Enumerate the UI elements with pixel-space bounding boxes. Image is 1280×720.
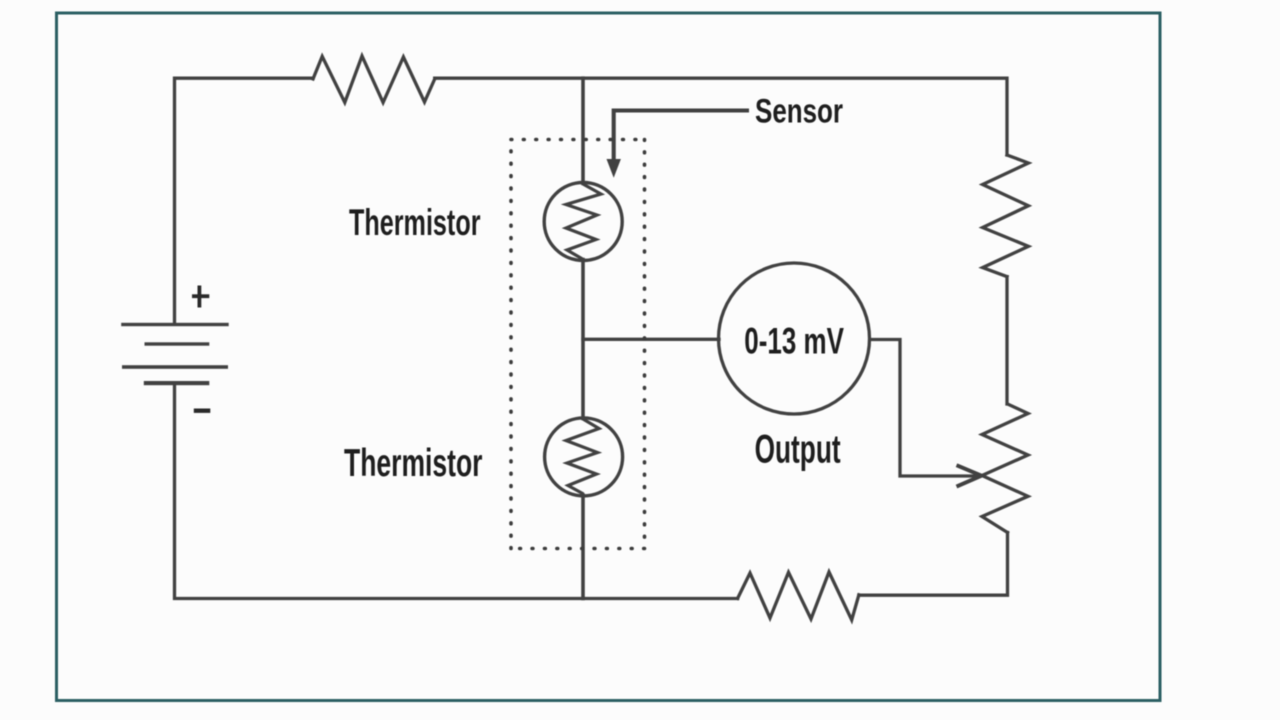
wire top-left: battery top to resistor R1 <box>175 78 314 323</box>
svg-text:Sensor: Sensor <box>755 93 843 131</box>
meter M1 <box>719 263 870 414</box>
wire right-bottom: potentiometer to resistor R3 <box>859 533 1008 596</box>
wire bottom: R3 to battery bottom <box>175 385 738 599</box>
svg-text:0-13 mV: 0-13 mV <box>744 321 844 362</box>
wire bridge bottom <box>581 495 585 599</box>
svg-text:Thermistor: Thermistor <box>349 202 481 243</box>
resistor R1 (top) <box>313 56 435 103</box>
wire top-right: R1 to right rail <box>435 78 1007 155</box>
svg-text:Output: Output <box>755 428 841 472</box>
battery negative label <box>194 409 211 413</box>
svg-text:Thermistor: Thermistor <box>344 442 483 485</box>
wire right-middle: R2 to potentiometer <box>1005 277 1008 404</box>
battery positive label <box>192 286 209 308</box>
sensor pointer <box>614 111 749 163</box>
wire meter to potentiometer wiper <box>870 340 976 477</box>
wire bridge middle <box>581 260 585 419</box>
potentiometer R4 body <box>982 404 1028 533</box>
wire bridge top <box>581 78 585 183</box>
dotted enclosure around thermistors <box>511 140 645 549</box>
thermistor TH2 (bottom) <box>545 418 623 496</box>
battery B1 plates <box>121 323 229 385</box>
thermistor TH1 (top) <box>544 183 622 261</box>
resistor R3 (bottom) <box>738 572 859 620</box>
wire bridge to meter <box>583 338 719 341</box>
resistor R2 (right upper) <box>983 155 1029 277</box>
potentiometer wiper arrow <box>957 465 982 486</box>
